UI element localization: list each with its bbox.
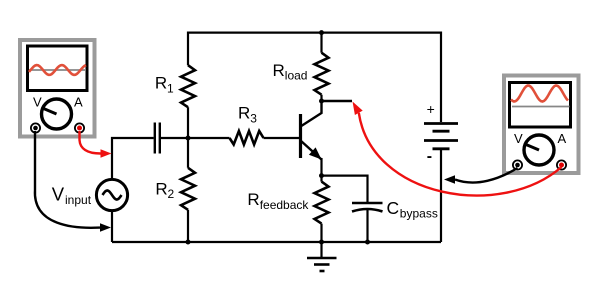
junction dot ground node xyxy=(319,240,324,245)
transistor Q1 emitter lead xyxy=(301,141,322,160)
AC source V_input xyxy=(96,179,127,210)
junction dot R2 bottom xyxy=(186,240,191,245)
red probe arrowhead at collector stub xyxy=(353,102,363,116)
resistor Rload xyxy=(315,53,329,95)
meter M1 black terminal xyxy=(31,123,40,132)
svg-text:R: R xyxy=(155,74,167,93)
svg-text:C: C xyxy=(387,198,400,218)
meter M2 red terminal xyxy=(557,160,566,169)
svg-text:+: + xyxy=(427,101,435,117)
collector probe stub wire xyxy=(322,100,353,102)
wire R3 to transistor base xyxy=(264,137,301,139)
wire base node to R2 xyxy=(187,138,189,168)
ground stem xyxy=(320,242,322,258)
wire top rail to Rload xyxy=(320,33,322,53)
wire R1 to base node xyxy=(187,107,189,138)
black probe arrowhead at battery wire xyxy=(444,175,455,183)
meter M2 knob xyxy=(524,135,554,165)
black probe arrowhead at bottom-left wire xyxy=(100,223,111,231)
meter M2 knob pointer xyxy=(526,145,539,151)
wire coupling cap to base node xyxy=(161,137,188,139)
wire AC source to bottom rail xyxy=(111,210,113,242)
svg-text:V: V xyxy=(514,131,523,146)
svg-text:R: R xyxy=(238,104,250,123)
ground bar 3 xyxy=(320,270,325,273)
meter M2 body (output multimeter) xyxy=(504,76,579,174)
meter M1 knob xyxy=(42,99,72,129)
junction dot Cbypass bottom xyxy=(365,240,370,245)
svg-text:load: load xyxy=(285,69,308,83)
svg-text:R: R xyxy=(247,190,259,209)
red probe wire from M1 red terminal xyxy=(80,131,101,154)
resistor R3 xyxy=(230,131,264,145)
battery plate short 1 xyxy=(433,130,450,133)
wire emitter to emitter node xyxy=(320,158,322,176)
wire base node to R3 xyxy=(188,137,230,139)
battery plate long 2 xyxy=(424,139,458,142)
meter M2 black terminal xyxy=(513,160,522,169)
red probe arrowhead at input node xyxy=(101,149,112,157)
resistor Rfeedback xyxy=(315,182,329,224)
svg-text:input: input xyxy=(65,193,92,207)
battery plate short 2 xyxy=(433,147,450,150)
wire top rail xyxy=(188,33,441,122)
svg-text:-: - xyxy=(427,148,432,165)
capacitor Cbypass bottom plate (curved) xyxy=(352,209,383,212)
svg-text:feedback: feedback xyxy=(260,198,310,212)
meter M1 waveform trace xyxy=(29,65,86,75)
junction dot emitter node xyxy=(319,173,324,178)
meter M2 screen baseline xyxy=(512,106,570,108)
transistor Q1 collector lead xyxy=(301,101,322,127)
svg-text:V: V xyxy=(52,183,65,204)
wire emitter node to Rfeedback xyxy=(320,176,322,182)
transistor Q1 base bar xyxy=(299,114,302,158)
svg-text:2: 2 xyxy=(168,187,175,201)
svg-text:R: R xyxy=(273,61,285,80)
svg-text:V: V xyxy=(33,95,42,110)
black probe wire from M2 black terminal xyxy=(455,168,518,183)
svg-text:3: 3 xyxy=(250,112,257,126)
wire bottom rail xyxy=(112,241,441,243)
wire R2 to bottom rail xyxy=(187,210,189,242)
resistor R1 xyxy=(181,65,195,107)
meter M2 waveform trace xyxy=(511,86,568,102)
ground bar 2 xyxy=(314,263,330,266)
wire battery to bottom rail xyxy=(440,149,442,242)
svg-text:R: R xyxy=(155,179,167,198)
AC source sine symbol xyxy=(103,191,122,200)
wire Cbypass to bottom rail xyxy=(366,210,368,243)
coupling capacitor plates xyxy=(154,123,156,154)
black probe wire from M1 black terminal xyxy=(35,131,100,228)
meter M1 screen baseline xyxy=(29,69,86,71)
meter M1 knob pointer xyxy=(44,109,57,115)
svg-text:bypass: bypass xyxy=(400,207,438,221)
svg-text:A: A xyxy=(558,131,567,146)
svg-text:1: 1 xyxy=(167,81,174,95)
wire input top-left corner to coupling cap xyxy=(112,138,154,180)
transistor Q1 emitter arrowhead xyxy=(309,147,322,159)
meter M1 body (input multimeter) xyxy=(20,40,95,137)
meter M1 red terminal xyxy=(75,123,84,132)
junction dot top rail / Rload xyxy=(319,30,324,35)
wire Rfeedback to bottom rail xyxy=(320,224,322,242)
ground bar 1 xyxy=(307,257,337,260)
svg-text:A: A xyxy=(74,95,83,110)
wire Rload to collector node xyxy=(320,95,322,101)
capacitor Cbypass top plate xyxy=(352,202,383,205)
junction dot base node xyxy=(186,136,191,141)
red probe wire from M2 red terminal xyxy=(359,113,562,196)
battery plate long 1 xyxy=(424,122,458,125)
wire emitter node to Cbypass xyxy=(322,176,368,202)
meter M2 screen xyxy=(510,83,571,128)
junction dot collector node xyxy=(319,99,324,104)
resistor R2 xyxy=(181,168,195,210)
meter M1 screen xyxy=(28,46,88,91)
